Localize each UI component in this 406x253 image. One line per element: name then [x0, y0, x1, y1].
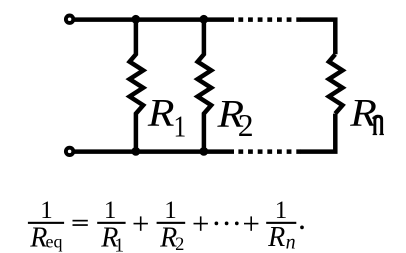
- svg-text:eq: eq: [46, 231, 63, 251]
- svg-text:1: 1: [164, 197, 177, 224]
- svg-text:R: R: [349, 91, 377, 135]
- svg-text:1: 1: [174, 110, 187, 144]
- svg-text:1: 1: [275, 197, 288, 224]
- svg-text:n: n: [286, 231, 296, 253]
- svg-text:1: 1: [104, 197, 117, 224]
- svg-text:R: R: [267, 222, 285, 253]
- svg-text:2: 2: [175, 235, 184, 253]
- svg-text:R: R: [147, 91, 175, 135]
- svg-text:1: 1: [40, 197, 53, 224]
- svg-text:1: 1: [114, 235, 124, 253]
- svg-text:2: 2: [238, 108, 254, 143]
